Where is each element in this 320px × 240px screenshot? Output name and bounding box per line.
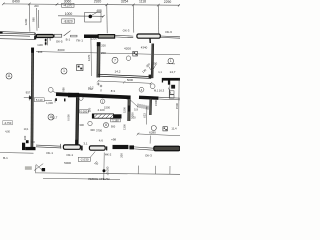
window OK-6 bar [137, 34, 160, 38]
svg-text:-8.820: -8.820 [64, 19, 73, 23]
svg-text:1100: 1100 [37, 43, 43, 47]
bar B [89, 146, 105, 150]
left exterior wall (double line) [0, 32, 35, 40]
svg-text:М,1: М,1 [154, 88, 159, 92]
svg-text:14,2: 14,2 [114, 70, 120, 74]
svg-text:1300: 1300 [123, 124, 127, 130]
dim line A [3, 4, 180, 5]
wall band labels [56, 29, 172, 44]
svg-text:ОК-3: ОК-3 [145, 154, 152, 158]
window right (double thin) [160, 36, 180, 38]
svg-text:1.160: 1.160 [112, 118, 119, 122]
svg-text:200: 200 [131, 115, 136, 119]
door threshold [70, 35, 77, 37]
left wall top cap [31, 48, 34, 53]
svg-text:10,1: 10,1 [24, 128, 29, 131]
svg-text:980: 980 [61, 87, 65, 92]
window segment 2 [54, 34, 61, 37]
ticks under wall left [45, 98, 56, 102]
elevation box -8.820 [62, 19, 75, 23]
svg-text:Л: Л [100, 89, 102, 93]
svg-text:10: 10 [49, 115, 53, 119]
svg-text:1: 1 [170, 59, 172, 63]
svg-text:900: 900 [111, 124, 116, 128]
svg-text:8: 8 [105, 123, 107, 127]
svg-text:300: 300 [88, 107, 92, 112]
svg-text:1118: 1118 [139, 0, 146, 4]
svg-text:НК-2: НК-2 [105, 152, 112, 156]
dim line below partition [98, 81, 151, 83]
svg-text:1500: 1500 [154, 100, 158, 106]
svg-text:5.110: 5.110 [36, 98, 43, 102]
svg-text:3000: 3000 [58, 48, 65, 52]
leader cross + black square [34, 164, 43, 174]
svg-text:3254: 3254 [121, 0, 129, 4]
small box +5.110 [34, 98, 44, 102]
623 vertical dim [146, 107, 148, 125]
elevation box right of wall [80, 110, 89, 113]
svg-text:×98: ×98 [111, 138, 116, 142]
svg-text:6490: 6490 [12, 0, 20, 4]
window OK-5 bar [36, 34, 53, 37]
wall seg right of door [139, 96, 158, 100]
svg-text:300: 300 [79, 123, 84, 127]
svg-text:4340: 4340 [141, 46, 148, 50]
wall stub below bar [149, 38, 151, 43]
svg-text:ЛЕВОЕ КРЫЛО: ЛЕВОЕ КРЫЛО [88, 177, 110, 180]
svg-text:11,4: 11,4 [171, 127, 177, 131]
svg-text:ОК-3: ОК-3 [123, 29, 130, 33]
svg-text:1500: 1500 [175, 102, 179, 109]
svg-text:16,3: 16,3 [159, 89, 165, 93]
main black wall bar [84, 35, 98, 39]
svg-text:1,1: 1,1 [158, 70, 162, 74]
svg-text:Б-1: Б-1 [66, 37, 71, 41]
svg-text:5000: 5000 [127, 78, 134, 82]
svg-text:В-1: В-1 [3, 156, 8, 160]
circle at left end with leader [48, 87, 53, 92]
vertical drop lines [28, 4, 31, 32]
gap marks [106, 146, 107, 150]
svg-text:ОК-5: ОК-5 [56, 40, 63, 44]
svg-text:-0.750: -0.750 [4, 121, 12, 125]
small partition below window [46, 38, 48, 46]
svg-text:200: 200 [152, 61, 157, 65]
svg-text:7: 7 [114, 59, 116, 63]
door gap ticks [81, 146, 83, 151]
room 11 circle [6, 73, 12, 79]
svg-text:1200: 1200 [24, 18, 28, 25]
svg-text:1200: 1200 [91, 36, 98, 40]
svg-text:300: 300 [38, 50, 43, 54]
svg-text:3,1: 3,1 [83, 141, 88, 145]
room 10 circle [48, 114, 54, 120]
svg-text:200: 200 [120, 153, 124, 158]
svg-text:1000: 1000 [65, 12, 73, 16]
elevation box -0.750 [3, 121, 13, 125]
plus marks [97, 83, 102, 88]
outlined wall bar [98, 35, 114, 39]
svg-text:2920: 2920 [94, 0, 102, 4]
bottom frame lines [36, 173, 181, 174]
svg-text:5,9: 5,9 [134, 108, 138, 112]
svg-text:11: 11 [7, 74, 11, 78]
svg-text:8=1: 8=1 [111, 89, 116, 93]
dim labels row A [12, 0, 171, 16]
svg-text:1,030: 1,030 [46, 101, 53, 105]
svg-text:6280: 6280 [149, 131, 156, 135]
dim line B [58, 15, 104, 17]
svg-text:2290: 2290 [164, 0, 172, 4]
bar D [154, 146, 180, 151]
tick marks [2, 3, 5, 6]
elevation box -4.270 [62, 3, 74, 7]
panel symbol [77, 65, 83, 71]
svg-text:4200: 4200 [124, 47, 131, 51]
svg-text:±0.000: ±0.000 [106, 166, 110, 175]
terrace edge line [0, 152, 34, 155]
bar C black [113, 145, 129, 149]
svg-text:300: 300 [30, 140, 35, 144]
svg-text:980: 980 [32, 17, 36, 22]
svg-text:4,00: 4,00 [5, 131, 10, 134]
svg-text:0.000: 0.000 [81, 109, 88, 113]
window double line [134, 147, 153, 150]
vert dim line x~91 [90, 38, 93, 76]
svg-text:623: 623 [143, 113, 147, 118]
left bottom black L [22, 143, 25, 150]
svg-text:ОК-6: ОК-6 [165, 30, 172, 34]
junction ticks y~97 [24, 95, 31, 101]
svg-text:3700: 3700 [96, 129, 102, 133]
svg-text:ПК-1: ПК-1 [76, 38, 83, 42]
elevation box -2.030 [78, 157, 90, 161]
bathroom fixtures [169, 78, 179, 126]
window OK-1 bar A [63, 145, 80, 149]
svg-text:1270: 1270 [87, 54, 91, 61]
labels [3, 138, 152, 160]
svg-text:488: 488 [96, 9, 102, 13]
svg-text:ОК-1: ОК-1 [66, 153, 73, 157]
svg-text:5000: 5000 [64, 161, 71, 165]
wall end cap [0, 32, 3, 34]
circle at center bottom of wall [79, 96, 83, 100]
svg-text:300: 300 [23, 135, 27, 140]
svg-text:1500: 1500 [104, 106, 110, 110]
svg-text:0.000: 0.000 [67, 114, 71, 121]
svg-text:957: 957 [26, 91, 31, 95]
vertical dim with dot [103, 153, 105, 181]
svg-text:1: 1 [63, 69, 65, 73]
svg-text:РШ: РШ [88, 87, 93, 91]
svg-text:200: 200 [101, 43, 106, 47]
svg-text:14,7: 14,7 [169, 70, 175, 74]
svg-text:300: 300 [90, 128, 95, 132]
room circle top-right [168, 58, 174, 64]
circle above door gap [139, 87, 144, 92]
svg-text:200: 200 [101, 51, 106, 55]
svg-text:1500: 1500 [123, 107, 127, 113]
svg-text:200: 200 [34, 4, 39, 8]
door swing B-1 [64, 31, 71, 36]
svg-text:4,6: 4,6 [99, 138, 104, 142]
leader diagonals and 200/150 [149, 65, 156, 72]
svg-text:-2.030: -2.030 [80, 158, 89, 162]
window (double thin) [115, 35, 134, 37]
T black wall [162, 78, 180, 81]
detail box with dot [85, 12, 101, 22]
step down [34, 33, 36, 40]
svg-text:ОК-1: ОК-1 [46, 151, 53, 155]
svg-text:-4.270: -4.270 [63, 4, 72, 8]
